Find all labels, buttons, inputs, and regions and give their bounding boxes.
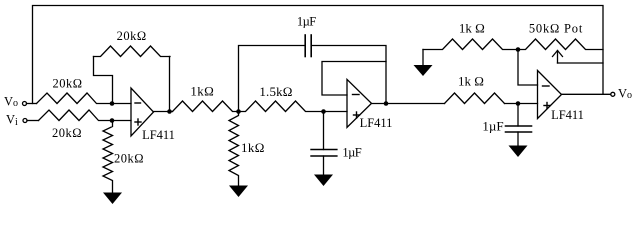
wire Vo terminal to R zigzag: [27, 103, 37, 105]
resistor 20k (to ground below plus1): [103, 121, 113, 194]
wire U3 output: [562, 93, 611, 95]
node out2 junction: [384, 101, 389, 106]
resistor 20k (Vi input): [39, 110, 113, 121]
resistor 1k (stage2 input): [173, 101, 239, 112]
wire U2 inner feedback loop: [322, 62, 386, 96]
wire cap to U2 output vertical: [311, 46, 386, 104]
wire U2 output: [372, 103, 445, 105]
svg-text:LF411: LF411: [360, 116, 393, 130]
svg-text:1.5kΩ: 1.5kΩ: [259, 84, 292, 99]
node plus3 junction: [516, 101, 521, 106]
node pot junction: [516, 47, 521, 52]
svg-text:1k Ω: 1k Ω: [459, 21, 485, 36]
svg-text:1kΩ: 1kΩ: [190, 84, 214, 99]
wire feedback jog from minus1 up: [94, 57, 113, 104]
wire junction down to minus3: [518, 50, 538, 86]
op-amp U3 LF411: [538, 71, 562, 119]
svg-text:LF411: LF411: [142, 128, 175, 142]
node out1 junction: [167, 109, 172, 114]
resistor 1k (to ground below node A): [229, 112, 239, 186]
wire plus2 to op-amp U2: [324, 111, 348, 113]
resistor 20k feedback U1: [94, 46, 171, 57]
pot wiper arrow: [557, 51, 559, 64]
node Vo output terminal: [611, 92, 615, 96]
wire minus1 to op-amp U1: [112, 103, 131, 105]
wire U1 output: [154, 111, 173, 113]
capacitor 1uF (stage2 feedback): [304, 35, 306, 57]
ground (stage2 cap): [314, 175, 333, 187]
wire wiper to output vertical: [558, 62, 604, 64]
wire node A up to cap: [239, 46, 306, 112]
svg-text:20kΩ: 20kΩ: [52, 77, 82, 91]
svg-text:20kΩ: 20kΩ: [114, 152, 144, 166]
resistor 20k (Vo input): [37, 93, 113, 104]
svg-text:1k Ω: 1k Ω: [458, 74, 484, 89]
svg-text:1µF: 1µF: [482, 119, 503, 134]
node A junction: [236, 109, 241, 114]
resistor 1k (stage3 top, to ground): [423, 39, 518, 50]
svg-text:50kΩ Pot: 50kΩ Pot: [529, 22, 583, 36]
resistor 1.5k: [239, 101, 324, 112]
node plus1 junction: [110, 118, 115, 123]
wire/ground lead stage3 top: [422, 50, 424, 66]
svg-text:1µF: 1µF: [297, 15, 316, 29]
node plus2 junction: [321, 109, 326, 114]
svg-text:LF411: LF411: [551, 108, 584, 122]
ground (stage3 top): [414, 65, 433, 76]
wire plus1 to op-amp U1: [112, 120, 131, 122]
capacitor 1uF (stage2 to ground): [323, 112, 325, 150]
svg-text:1kΩ: 1kΩ: [241, 140, 265, 155]
wire Vi terminal to R zigzag: [27, 120, 39, 122]
capacitor 1uF (stage3 to ground): [517, 104, 519, 127]
op-amp U1 LF411: [131, 88, 154, 136]
node Vo input terminal: [23, 102, 27, 106]
op-amp U2 LF411: [347, 79, 372, 127]
wire top feedback bus: [33, 6, 604, 104]
wire feedback right side down to U1 output: [169, 57, 171, 112]
ground (below 1k): [229, 186, 248, 198]
node minus1 junction: [110, 101, 115, 106]
ground (below 20k): [103, 193, 122, 205]
wire to plus3: [505, 103, 538, 105]
svg-text:20kΩ: 20kΩ: [52, 126, 82, 140]
ground (stage3 cap): [509, 146, 528, 158]
svg-text:1µF: 1µF: [342, 146, 361, 160]
potentiometer 50k: [518, 39, 603, 50]
svg-text:20kΩ: 20kΩ: [117, 29, 147, 43]
resistor 1k (stage3 input): [445, 93, 505, 104]
node Vi input terminal: [23, 119, 27, 123]
